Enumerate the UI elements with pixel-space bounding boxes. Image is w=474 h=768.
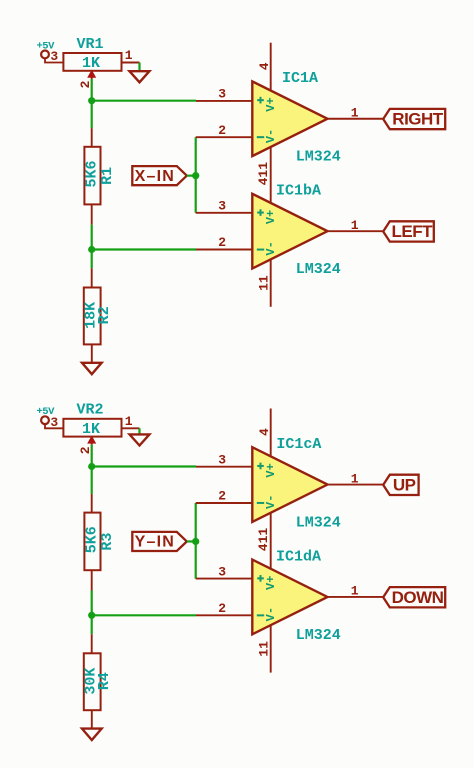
svg-text:3: 3: [218, 564, 226, 579]
svg-text:411: 411: [256, 528, 271, 552]
VR1 wiper pin 2: [78, 71, 95, 89]
resistor R4 body: [84, 653, 101, 710]
IC1dA V+ pin name: [264, 576, 278, 590]
ground (VR2): [130, 434, 150, 445]
VR1 reference label: [76, 36, 103, 53]
wire junction to IC1cA pin 3: [92, 465, 196, 467]
svg-text:1: 1: [125, 414, 133, 429]
svg-text:1: 1: [351, 584, 359, 599]
svg-text:V+: V+: [264, 97, 278, 111]
IC1cA reference label: [276, 436, 321, 453]
svg-text:4: 4: [257, 62, 272, 70]
IC1cA + input mark: [257, 463, 264, 470]
wire junction B to R4: [91, 615, 93, 653]
IC1cA value LM324: [296, 514, 341, 531]
wire R1 to junction B: [91, 204, 93, 249]
IC1bA reference label: [276, 183, 321, 200]
VR1 pin 1: [122, 48, 140, 63]
svg-text:4: 4: [257, 428, 272, 436]
junction node B: [88, 246, 95, 253]
IC1bA + input mark: [257, 209, 264, 216]
wire junction B to IC1bA pin 2: [92, 248, 196, 250]
op-amp IC1cA body: [252, 447, 327, 522]
svg-text:LEFT: LEFT: [392, 222, 434, 241]
IC1cA - input mark: [257, 502, 264, 504]
R2 reference label: [96, 306, 113, 324]
pin 2 stub IC1bA: [196, 235, 252, 250]
power pin 4 stub IC1A: [257, 43, 272, 91]
wire +5V to VR2 pin 3: [45, 415, 63, 430]
op-amp IC1dA body: [252, 560, 327, 635]
svg-text:3: 3: [50, 49, 58, 64]
svg-text:IC1A: IC1A: [282, 70, 318, 87]
power pin 11 stub IC1dA: [257, 625, 272, 672]
pin 3 stub IC1cA: [196, 452, 252, 467]
svg-text:V+: V+: [264, 463, 278, 477]
svg-text:IC1dA: IC1dA: [276, 548, 321, 565]
global label DOWN: [383, 587, 445, 607]
IC1dA V- pin name: [264, 607, 278, 621]
svg-text:3: 3: [218, 199, 226, 214]
IC1cA V- pin name: [264, 495, 278, 509]
svg-text:LM324: LM324: [296, 627, 341, 644]
wire junction to R1: [91, 101, 93, 147]
global label RIGHT: [383, 109, 445, 129]
svg-text:1K: 1K: [82, 55, 100, 72]
junction node A: [88, 97, 95, 104]
IC1A - input mark: [257, 136, 264, 138]
IC1A V+ pin name: [264, 97, 278, 111]
svg-text:5K6: 5K6: [83, 526, 100, 553]
pin 2 stub IC1A: [196, 123, 253, 138]
svg-text:Y–IN: Y–IN: [135, 534, 175, 551]
IC1dA reference label: [276, 548, 321, 565]
svg-text:V-: V-: [264, 241, 278, 255]
VR2 value 1K: [82, 421, 100, 438]
IC1bA value LM324: [296, 261, 341, 278]
VR2 wiper pin 2: [78, 437, 95, 455]
output pin 1 wire IC1A: [328, 106, 384, 121]
power pin 11 stub IC1bA: [257, 259, 272, 306]
svg-text:LM324: LM324: [296, 261, 341, 278]
wire VR1 pin1 to ground: [138, 63, 140, 72]
wire wiper to junction: [91, 445, 93, 467]
svg-text:2: 2: [218, 123, 226, 138]
IC1bA V- pin name: [264, 241, 278, 255]
pin 2 stub IC1dA: [196, 601, 252, 616]
wire X-IN vertical: [187, 137, 196, 213]
wire R2 to ground: [91, 344, 93, 362]
svg-text:V-: V-: [264, 607, 278, 621]
svg-text:V-: V-: [264, 495, 278, 509]
svg-text:DOWN: DOWN: [392, 588, 444, 607]
R1 reference label: [99, 167, 116, 185]
VR2 reference label: [76, 402, 103, 419]
svg-text:11: 11: [257, 275, 272, 291]
svg-text:1K: 1K: [82, 421, 100, 438]
svg-text:3: 3: [218, 452, 226, 467]
ground (VR1): [130, 71, 150, 82]
wire junction B to R2: [91, 250, 93, 288]
svg-text:V+: V+: [264, 210, 278, 224]
svg-text:IC1cA: IC1cA: [276, 436, 321, 453]
wire wiper to junction: [91, 79, 93, 101]
resistor R1 body: [84, 147, 100, 205]
R2 value 18K: [83, 302, 100, 329]
output pin 1 wire IC1dA: [328, 584, 384, 599]
VR1 value 1K: [82, 55, 100, 72]
wire junction to IC1A pin 3: [92, 100, 196, 102]
junction X-IN: [192, 172, 199, 179]
global label LEFT: [383, 221, 434, 241]
svg-text:R1: R1: [99, 167, 116, 185]
wire R3 to junction B: [91, 570, 93, 615]
svg-text:IC1bA: IC1bA: [276, 183, 321, 200]
potentiometer VR2 body: [63, 419, 121, 437]
resistor R3 body: [84, 513, 100, 571]
output pin 1 wire IC1bA: [328, 218, 384, 233]
IC1dA value LM324: [296, 627, 341, 644]
VR2 pin 1: [122, 414, 140, 429]
pin 3 stub IC1bA: [196, 199, 253, 214]
op-amp IC1A body: [252, 81, 327, 156]
junction Y-IN: [192, 538, 199, 545]
svg-text:3: 3: [218, 87, 226, 102]
svg-text:VR1: VR1: [76, 36, 103, 53]
output pin 1 wire IC1cA: [328, 471, 384, 486]
IC1cA V+ pin name: [264, 463, 278, 477]
op-amp IC1bA body: [252, 194, 327, 269]
global label Y-IN: [132, 532, 187, 551]
svg-text:1: 1: [351, 106, 359, 121]
R1 value 5K6: [83, 160, 100, 187]
power pins IC1cA 11 / IC1dA 4: [256, 513, 271, 569]
svg-text:V-: V-: [264, 129, 278, 143]
svg-text:R3: R3: [99, 533, 116, 551]
R3 reference label: [99, 533, 116, 551]
global label UP: [383, 475, 418, 495]
IC1dA - input mark: [257, 614, 264, 616]
power +5V symbol (VR1): [36, 40, 55, 58]
wire Y-IN vertical: [187, 503, 196, 579]
power pins IC1A 11 / IC1bA 4: [256, 147, 271, 203]
svg-text:LM324: LM324: [296, 514, 341, 531]
svg-text:5K6: 5K6: [83, 160, 100, 187]
IC1A V- pin name: [264, 129, 278, 143]
svg-text:2: 2: [218, 601, 226, 616]
svg-text:2: 2: [218, 235, 226, 250]
svg-text:R2: R2: [96, 306, 113, 324]
ground (R2): [82, 363, 102, 374]
R4 value 30K: [83, 668, 100, 695]
IC1bA V+ pin name: [264, 210, 278, 224]
svg-text:RIGHT: RIGHT: [392, 110, 444, 129]
wire junction to R3: [91, 467, 93, 513]
pin 3 stub IC1A: [196, 87, 252, 102]
svg-text:LM324: LM324: [296, 149, 341, 166]
pin 2 stub IC1cA: [196, 489, 253, 504]
power +5V symbol (VR2): [36, 406, 55, 424]
svg-text:1: 1: [351, 471, 359, 486]
svg-text:X–IN: X–IN: [135, 168, 175, 185]
IC1A value LM324: [296, 149, 341, 166]
svg-text:V+: V+: [264, 576, 278, 590]
resistor R2 body: [84, 288, 101, 345]
R4 reference label: [96, 672, 113, 690]
R3 value 5K6: [83, 526, 100, 553]
IC1bA - input mark: [257, 249, 264, 251]
potentiometer VR1 body: [63, 53, 121, 71]
wire R4 to ground: [91, 710, 93, 728]
power pin 4 stub IC1cA: [257, 409, 272, 457]
svg-text:11: 11: [257, 641, 272, 657]
svg-text:1: 1: [351, 218, 359, 233]
junction node B: [88, 612, 95, 619]
svg-text:2: 2: [218, 489, 226, 504]
IC1A + input mark: [257, 97, 264, 104]
wire +5V to VR1 pin 3: [45, 49, 63, 64]
svg-text:VR2: VR2: [76, 402, 103, 419]
svg-text:411: 411: [256, 162, 271, 186]
ground (R4): [82, 729, 102, 740]
svg-text:1: 1: [125, 48, 133, 63]
svg-text:R4: R4: [96, 672, 113, 690]
global label X-IN: [132, 166, 187, 185]
IC1dA + input mark: [257, 575, 264, 582]
junction node A: [88, 463, 95, 470]
pin 3 stub IC1dA: [196, 564, 253, 579]
wire junction B to IC1dA pin 2: [92, 614, 196, 616]
svg-text:UP: UP: [393, 476, 416, 495]
wire VR2 pin1 to ground: [138, 428, 140, 434]
svg-text:3: 3: [50, 415, 58, 430]
IC1A reference label: [282, 70, 318, 87]
